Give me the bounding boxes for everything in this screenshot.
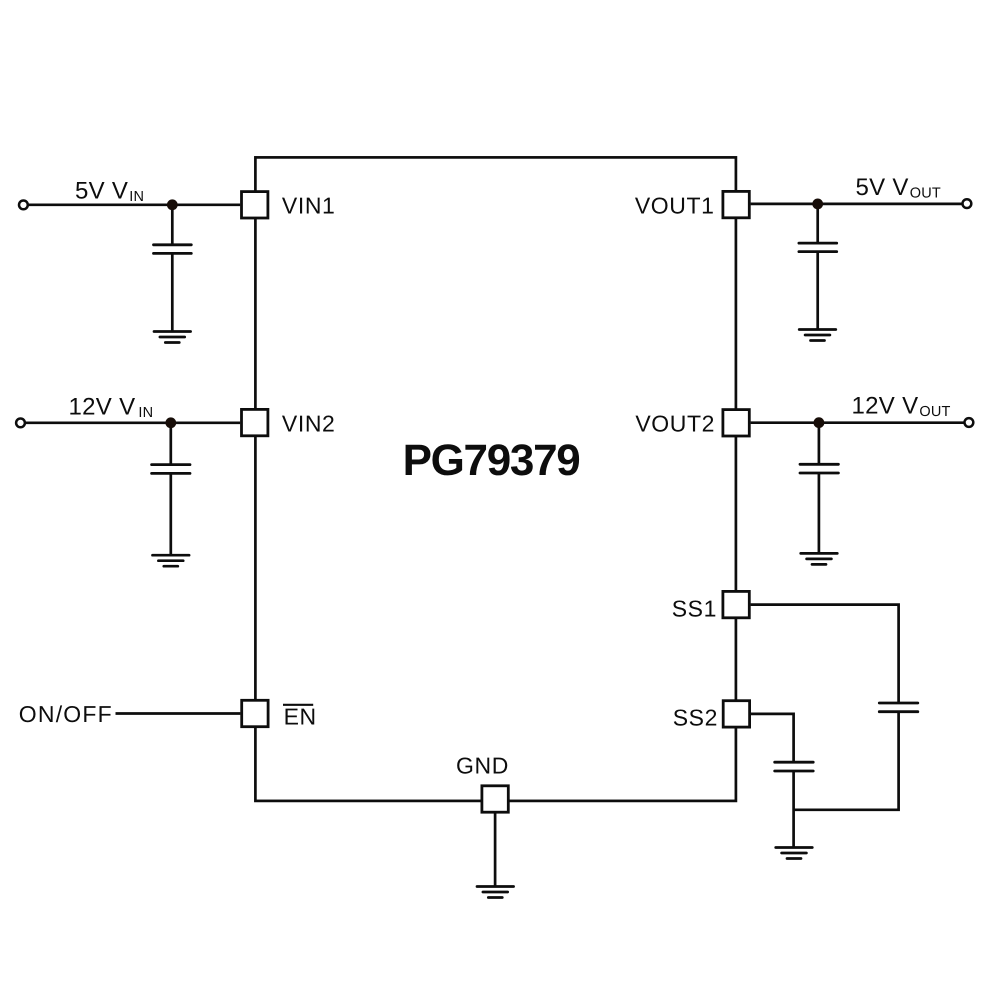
svg-text:VIN1: VIN1 <box>282 192 336 218</box>
svg-text:GND: GND <box>456 753 509 779</box>
svg-text:VOUT1: VOUT1 <box>635 193 715 219</box>
svg-text:SS1: SS1 <box>672 595 717 621</box>
svg-text:5V VIN: 5V VIN <box>75 178 144 206</box>
svg-text:12V VIN: 12V VIN <box>69 394 154 422</box>
svg-text:EN: EN <box>284 704 317 730</box>
svg-text:5V VOUT: 5V VOUT <box>856 174 941 202</box>
svg-text:PG79379: PG79379 <box>403 436 580 485</box>
svg-text:ON/OFF: ON/OFF <box>19 701 113 727</box>
svg-text:12V VOUT: 12V VOUT <box>852 393 951 421</box>
svg-text:SS2: SS2 <box>673 704 718 730</box>
svg-text:VOUT2: VOUT2 <box>635 411 715 437</box>
svg-text:VIN2: VIN2 <box>282 410 336 436</box>
